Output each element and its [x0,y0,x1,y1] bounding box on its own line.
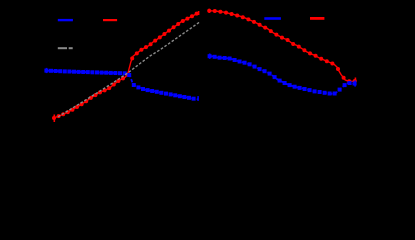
red series end error cap (left panel) [198,11,200,15]
blue series start error cap (left panel) [46,68,48,73]
red data series line (left panel) [52,12,199,120]
blue series end error cap (left panel) [197,96,199,101]
blue data series line (right panel) [208,54,357,95]
legend key blue dashed (right panel) [264,17,281,20]
legend key red (left panel) [103,19,117,21]
legend key blue dashed (left panel) [58,19,73,21]
red series end error cap (right panel) [355,78,357,85]
blue data series line (left panel) [44,69,198,101]
red data series line (right panel) [207,9,357,83]
legend key red (right panel) [310,17,324,20]
blue series end error cap (right panel) [354,81,356,87]
legend key gray dashed (left panel) [58,47,73,49]
red series start error cap (left panel) [54,115,56,123]
red series start error cap (right panel) [209,9,211,13]
blue series start error cap (right panel) [209,54,211,59]
gray dashed reference line (left panel) [58,22,200,117]
